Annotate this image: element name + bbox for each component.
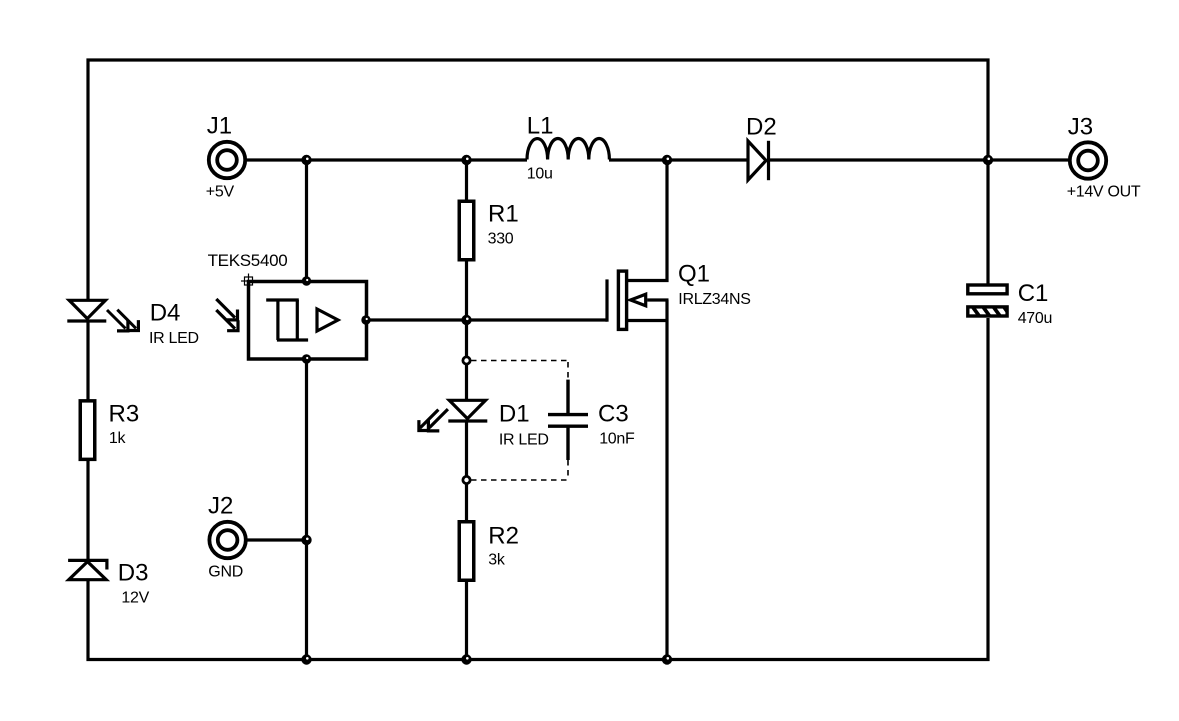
svg-text:1k: 1k: [109, 430, 127, 447]
svg-text:D4: D4: [150, 300, 181, 327]
wire vertical x467 R2 to bottom rail: [465, 581, 468, 660]
svg-text:470u: 470u: [1018, 310, 1052, 327]
svg-text:C1: C1: [1018, 280, 1049, 307]
capacitor C1 bottom plate hatched: [968, 307, 1013, 317]
svg-text:3k: 3k: [488, 552, 506, 569]
junction dot top rail x467: [461, 155, 471, 165]
svg-text:+5V: +5V: [206, 184, 235, 201]
node dot D1C3 top: [462, 356, 472, 366]
svg-text:J2: J2: [208, 492, 233, 519]
connector J2: [209, 522, 245, 558]
svg-text:D2: D2: [746, 114, 777, 141]
junction dot bottom rail x467: [461, 654, 471, 664]
svg-text:C3: C3: [598, 401, 629, 428]
wire vertical x307 TEKS top pin: [305, 160, 308, 281]
junction dot J2 wire: [301, 535, 311, 545]
inductor L1: [527, 138, 609, 159]
diode D2: [748, 141, 769, 180]
wire vertical x467 top rail to R1: [465, 160, 468, 200]
wire left border D4 to R3: [86, 321, 89, 400]
wire left border R3 to D3: [86, 461, 89, 560]
wire vertical x467 R1 to D1: [465, 261, 468, 400]
wire bottom border: [88, 318, 988, 660]
junction dot gate wire: [461, 315, 471, 325]
svg-text:IRLZ34NS: IRLZ34NS: [678, 291, 750, 308]
pin dot U1 output: [361, 315, 370, 324]
LED D4 arrows: [107, 310, 138, 331]
LED D4: [67, 300, 106, 321]
svg-text:GND: GND: [208, 564, 243, 581]
svg-text:IR LED: IR LED: [499, 431, 549, 448]
wire Q1 source horizontal: [628, 319, 669, 322]
IC U1 schmitt symbol: [266, 300, 308, 340]
wire vertical x467 D1 to R2: [465, 421, 468, 520]
svg-text:12V: 12V: [121, 590, 149, 607]
junction dot bottom rail x667: [662, 654, 672, 664]
IC U1 IR input arrows: [216, 299, 238, 331]
wire Q1 source to bottom rail: [665, 300, 668, 660]
IC U1 amp triangle: [317, 309, 338, 331]
LED D1: [448, 400, 487, 421]
junction dot top rail x988: [983, 155, 993, 165]
svg-text:R3: R3: [109, 401, 140, 428]
svg-text:Q1: Q1: [678, 261, 710, 288]
connector J3: [1070, 142, 1106, 178]
zener D3: [68, 560, 107, 579]
wire gate net TEKS output to Q1 gate: [367, 318, 608, 321]
IC U1 TEKS5400 box: [249, 282, 367, 360]
node dot D1C3 bottom: [462, 475, 472, 485]
svg-text:330: 330: [488, 231, 514, 248]
dashed subassembly box: [471, 361, 568, 481]
svg-text:J1: J1: [207, 113, 232, 140]
junction dot bottom rail x306: [301, 654, 311, 664]
wire C1 top lead: [986, 160, 989, 284]
wire J2 to vertical: [247, 538, 307, 541]
resistor R1: [459, 201, 474, 260]
junction dot top rail x306: [301, 155, 311, 165]
capacitor C1 top plate: [968, 285, 1007, 294]
MOSFET Q1 body arrow: [631, 294, 669, 306]
connector J1: [209, 142, 245, 178]
MOSFET Q1 channel: [618, 271, 626, 329]
MOSFET Q1 gate: [605, 279, 608, 321]
svg-text:D1: D1: [499, 400, 530, 427]
svg-text:IR LED: IR LED: [149, 330, 199, 347]
svg-text:10u: 10u: [527, 166, 553, 183]
svg-text:+14V OUT: +14V OUT: [1067, 184, 1141, 201]
IC U1 origin crosshair: [241, 274, 256, 289]
svg-text:D3: D3: [118, 560, 149, 587]
svg-text:R1: R1: [488, 201, 519, 228]
svg-text:10nF: 10nF: [599, 430, 635, 447]
svg-text:J3: J3: [1068, 114, 1093, 141]
LED D1 arrows: [419, 409, 448, 431]
wire vertical x307 TEKS bottom pin to bottom rail: [305, 359, 308, 660]
pin dot U1 bottom: [302, 354, 311, 363]
svg-text:R2: R2: [488, 522, 519, 549]
resistor R2: [459, 522, 474, 581]
resistor R3: [80, 401, 95, 460]
wire top border: [88, 60, 988, 300]
wire Q1 drain to top rail: [628, 160, 667, 281]
svg-text:L1: L1: [527, 113, 554, 140]
wire top rail J1 to J3: [247, 158, 527, 161]
capacitor C3: [548, 380, 588, 460]
svg-text:TEKS5400: TEKS5400: [208, 251, 288, 270]
junction dot top rail x667: [662, 155, 672, 165]
pin dot U1 top: [302, 276, 311, 285]
